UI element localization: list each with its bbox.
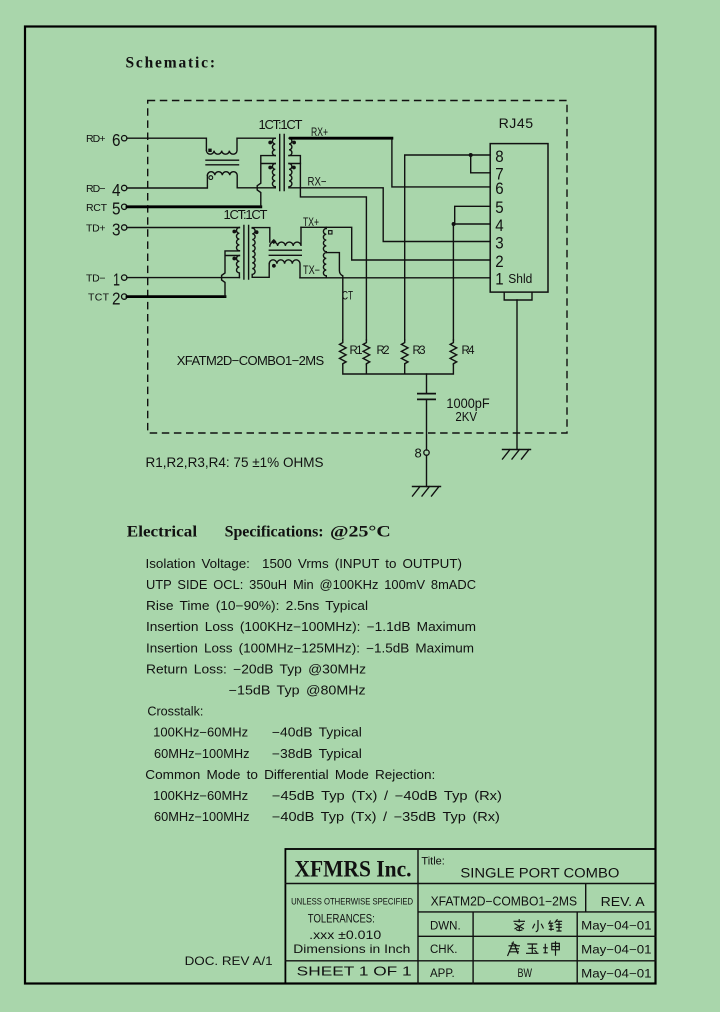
T1 primary bottom winding	[268, 164, 275, 188]
wire RJ45 pin8 to R3 column	[405, 155, 491, 340]
svg-text:5: 5	[112, 199, 121, 219]
T2 primary center-tap bracket and hop over TD- lead	[222, 251, 240, 297]
svg-text:−40dB Typ (Tx) / −35dB Typ (Rx: −40dB Typ (Tx) / −35dB Typ (Rx)	[272, 810, 500, 824]
svg-text:RX−: RX−	[308, 177, 327, 189]
svg-text:8: 8	[495, 148, 503, 166]
svg-text:TCT: TCT	[88, 291, 110, 303]
svg-text:Schematic:: Schematic:	[126, 55, 216, 72]
wire RJ45 pin4 to R4 column	[453, 224, 490, 340]
svg-text:RD−: RD−	[86, 183, 106, 195]
ground main	[413, 487, 441, 497]
svg-text:6: 6	[495, 180, 503, 198]
svg-text:3: 3	[495, 234, 503, 252]
svg-text:6: 6	[112, 130, 121, 150]
wire TD+ to T2 primary top	[127, 227, 239, 229]
svg-text:Return Loss: −20dB Typ @30MHz: Return Loss: −20dB Typ @30MHz	[146, 662, 366, 676]
svg-text:100KHz−60MHz: 100KHz−60MHz	[153, 726, 248, 740]
terminal 8	[415, 445, 430, 460]
svg-text:@25°C: @25°C	[330, 524, 391, 541]
svg-text:4: 4	[495, 217, 503, 235]
svg-text:APP.: APP.	[430, 968, 455, 980]
svg-text:2KV: 2KV	[455, 409, 477, 424]
svg-text:60MHz−100MHz: 60MHz−100MHz	[154, 747, 250, 761]
svg-text:R2: R2	[377, 345, 390, 357]
svg-text:UNLESS OTHERWISE SPECIFIED: UNLESS OTHERWISE SPECIFIED	[291, 896, 413, 907]
svg-text:BW: BW	[518, 968, 533, 980]
wire RJ45 pin5 stub	[455, 206, 491, 224]
resistor R2	[363, 340, 389, 365]
T1 secondary center-tap bracket	[289, 156, 300, 164]
wire RX- to RJ45 pin3	[289, 188, 490, 242]
svg-text:RJ45: RJ45	[499, 116, 534, 131]
junction dot pins 4-5	[452, 222, 456, 226]
svg-text:May−04−01: May−04−01	[581, 968, 652, 980]
svg-text:Insertion Loss (100MHz−125MHz): Insertion Loss (100MHz−125MHz): −1.5dB M…	[146, 641, 474, 655]
svg-text:TD−: TD−	[86, 272, 106, 284]
svg-text:RCT: RCT	[86, 202, 108, 214]
wire RX+ bold	[291, 137, 392, 140]
T2 primary bottom winding	[232, 256, 239, 278]
wire T1 secondary CT down right to R2 column	[300, 164, 366, 341]
svg-text:May−04−01: May−04−01	[581, 944, 652, 956]
title block frame	[285, 849, 655, 984]
svg-text:1CT:1CT: 1CT:1CT	[259, 117, 303, 132]
svg-text:TD+: TD+	[86, 222, 106, 234]
electrical specifications text	[145, 557, 502, 824]
RJ45 shield tab	[504, 292, 532, 300]
svg-text:−38dB Typical: −38dB Typical	[272, 747, 362, 761]
svg-text:SHEET 1 OF 1: SHEET 1 OF 1	[297, 964, 412, 978]
svg-text:Title:: Title:	[421, 856, 444, 868]
wire T2 secondary top to choke L2	[252, 228, 270, 243]
svg-text:Electrical: Electrical	[127, 524, 198, 541]
svg-text:Shld: Shld	[508, 271, 532, 286]
pin RCT 5	[86, 199, 127, 219]
svg-text:Isolation Voltage: 1500 Vrms: Isolation Voltage: 1500 Vrms (INPUT to O…	[146, 557, 463, 571]
pin TD+ 3	[86, 219, 127, 239]
wire choke L1 top to T1 primary	[237, 137, 275, 139]
svg-text:SINGLE PORT COMBO: SINGLE PORT COMBO	[460, 866, 619, 881]
wire TX+ to RJ45 pin2	[301, 227, 490, 260]
RJ45 pin numbers	[495, 148, 532, 289]
transformer T2 core	[244, 226, 249, 280]
wire RJ45 pin7 stub	[471, 155, 491, 173]
row DWN	[430, 920, 652, 932]
resistor R4	[450, 340, 475, 365]
wire RD+ to choke L1	[127, 138, 206, 150]
svg-text:.xxx ±0.010: .xxx ±0.010	[309, 928, 381, 942]
wire shield to ground	[516, 300, 518, 450]
svg-text:R3: R3	[413, 345, 426, 357]
svg-text:4: 4	[112, 180, 121, 200]
svg-text:UTP SIDE OCL: 350uH Min @100KH: UTP SIDE OCL: 350uH Min @100KHz 100mV 8m…	[146, 578, 476, 592]
wire choke L1 bottom to T1 primary bottom	[237, 187, 275, 189]
svg-text:Crosstalk:: Crosstalk:	[147, 705, 203, 719]
wire RD- to choke L1	[127, 175, 207, 188]
wire T2 secondary bottom to choke L2	[252, 264, 269, 278]
wire TD- to T2 primary bottom	[127, 277, 239, 279]
pin TD- 1	[86, 270, 127, 290]
resistor R3	[401, 340, 425, 365]
svg-text:RD+: RD+	[86, 133, 106, 145]
svg-text:Common Mode to Differential Mo: Common Mode to Differential Mode Rejecti…	[145, 768, 435, 782]
svg-text:DWN.: DWN.	[430, 920, 461, 932]
ground shield	[503, 450, 531, 460]
pin RD- 4	[86, 180, 127, 200]
choke L1 top coil	[206, 138, 237, 154]
pin RD+ 6	[86, 130, 127, 150]
dashed schematic boundary box	[148, 101, 567, 434]
RJ45 connector box	[490, 144, 548, 293]
choke output coil (cable side)	[323, 227, 332, 277]
svg-text:1CT:1CT: 1CT:1CT	[224, 207, 268, 222]
wire RX+ down to RJ45 pin6	[392, 140, 490, 187]
svg-text:DOC. REV A/1: DOC. REV A/1	[185, 954, 273, 968]
T1 primary center-tap bracket and hop over RD- lead	[257, 156, 275, 207]
wire terminal 8 to ground	[426, 455, 428, 486]
svg-text:1: 1	[113, 270, 120, 290]
svg-text:2: 2	[495, 253, 503, 271]
T2 secondary winding	[252, 228, 258, 277]
svg-text:−45dB Typ (Tx) / −40dB Typ (Rx: −45dB Typ (Tx) / −40dB Typ (Rx)	[272, 789, 502, 803]
svg-text:May−04−01: May−04−01	[581, 921, 652, 933]
wire RCT bold to T1 center tap	[127, 205, 261, 208]
svg-text:5: 5	[495, 199, 503, 217]
svg-text:100KHz−60MHz: 100KHz−60MHz	[153, 789, 248, 803]
choke L2 bottom coil	[269, 260, 300, 278]
svg-text:8: 8	[415, 445, 422, 460]
svg-text:REV. A: REV. A	[601, 895, 646, 909]
choke L1 core	[206, 160, 239, 165]
svg-text:CT: CT	[342, 291, 353, 303]
pin TCT 2	[88, 289, 127, 309]
wire TX- to RJ45 pin1	[300, 277, 490, 279]
svg-text:R1,R2,R3,R4: 75 ±1% OHMS: R1,R2,R3,R4: 75 ±1% OHMS	[146, 455, 324, 470]
svg-text:R4: R4	[462, 345, 476, 357]
svg-text:TX−: TX−	[303, 265, 320, 277]
svg-text:−15dB Typ @80MHz: −15dB Typ @80MHz	[229, 684, 366, 698]
signature DWN	[514, 919, 563, 932]
svg-text:Rise Time (10−90%): 2.5ns Typi: Rise Time (10−90%): 2.5ns Typical	[146, 599, 368, 613]
junction dot pins 7-8	[469, 153, 473, 157]
svg-text:XFMRS Inc.: XFMRS Inc.	[295, 857, 412, 882]
svg-text:R1: R1	[350, 345, 363, 357]
row APP	[430, 968, 652, 981]
T2 primary top winding	[232, 228, 239, 251]
svg-text:3: 3	[112, 219, 121, 239]
T1 primary top winding	[268, 138, 275, 155]
svg-text:2: 2	[112, 289, 121, 309]
resistor R1	[340, 340, 363, 365]
wire TCT bold to T2 center tap	[127, 295, 225, 298]
svg-text:Specifications:: Specifications:	[225, 524, 324, 541]
tolerances cell text	[291, 896, 413, 956]
choke L2 top coil	[270, 227, 301, 246]
svg-text:Insertion Loss (100KHz−100MHz): Insertion Loss (100KHz−100MHz): −1.1dB M…	[146, 620, 476, 634]
transformer T1 core	[280, 135, 285, 191]
svg-text:Dimensions in Inch: Dimensions in Inch	[293, 942, 410, 956]
svg-text:TOLERANCES:: TOLERANCES:	[308, 913, 375, 925]
svg-text:−40dB Typical: −40dB Typical	[272, 726, 362, 740]
svg-text:XFATM2D−COMBO1−2MS: XFATM2D−COMBO1−2MS	[177, 353, 325, 368]
bus wire under resistors	[343, 365, 454, 375]
T1 secondary top winding	[289, 138, 296, 155]
choke L2 core	[269, 250, 301, 255]
row CHK	[430, 944, 652, 957]
capacitor C1 1000pF	[417, 374, 490, 450]
svg-text:1: 1	[495, 271, 503, 289]
choke L1 bottom coil	[207, 172, 237, 188]
signature CHK	[508, 941, 560, 956]
svg-text:XFATM2D−COMBO1−2MS: XFATM2D−COMBO1−2MS	[431, 894, 577, 908]
svg-text:CHK.: CHK.	[430, 944, 457, 956]
svg-text:60MHz−100MHz: 60MHz−100MHz	[154, 810, 250, 824]
wire CT center tap to R1 with hop over TX-	[327, 253, 343, 340]
heading Electrical Specifications	[127, 524, 391, 541]
T1 secondary bottom winding	[289, 164, 296, 188]
